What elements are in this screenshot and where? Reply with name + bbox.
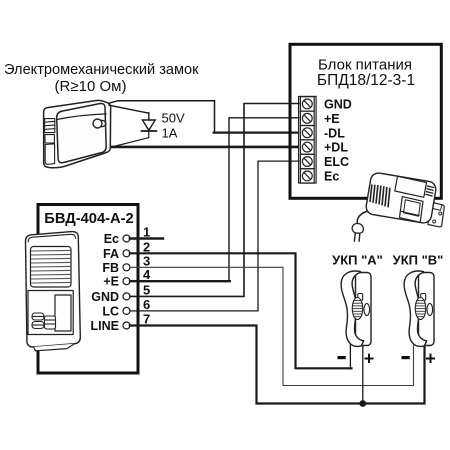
adapter plug	[352, 224, 363, 234]
svg-text:+E: +E	[103, 275, 119, 289]
terminal +DL	[300, 140, 314, 154]
diode VD1	[109, 105, 156, 146]
svg-text:FB: FB	[102, 261, 119, 275]
svg-text:Электромеханический замок: Электромеханический замок	[4, 62, 199, 78]
svg-text:6: 6	[143, 297, 150, 312]
svg-text:БПД18/12-3-1: БПД18/12-3-1	[317, 72, 415, 89]
panel speaker grille	[31, 247, 72, 288]
label: handset B minus	[402, 356, 410, 359]
wire: lock top terminal to -DL	[108, 101, 299, 133]
svg-text:FA: FA	[103, 247, 119, 261]
svg-text:5: 5	[143, 282, 150, 297]
wire: pin1 Ec stub	[130, 237, 163, 239]
БВД-404-А-2 box	[38, 205, 138, 374]
svg-text:Ec: Ec	[324, 170, 339, 184]
wire: GND terminal to panel pin5 GND	[130, 104, 299, 297]
lock barrel	[93, 119, 102, 128]
svg-text:4: 4	[143, 267, 151, 282]
lock (электромеханический замок)	[44, 100, 111, 167]
svg-text:GND: GND	[91, 290, 119, 304]
terminal +E	[300, 111, 314, 125]
lock strike plates (left column)	[45, 119, 55, 165]
terminal Ec	[300, 169, 314, 183]
panel buttons	[32, 313, 56, 329]
wire: +E terminal to panel pin4 +E	[130, 118, 299, 281]
svg-text:Ec: Ec	[104, 232, 119, 246]
terminal GND	[300, 97, 314, 111]
power supply box БПД18/12-3-1	[290, 44, 441, 198]
adapter socket recess	[400, 197, 424, 223]
svg-text:+: +	[425, 349, 436, 369]
svg-text:LINE: LINE	[91, 319, 119, 333]
svg-text:50V: 50V	[162, 111, 185, 126]
terminal ELC	[300, 154, 314, 168]
svg-text:LC: LC	[102, 304, 119, 318]
intercom panel drawing	[25, 232, 80, 351]
adapter right vents	[426, 186, 434, 196]
svg-text:(R≥10 Ом): (R≥10 Ом)	[55, 78, 127, 95]
power supply unit photo	[352, 172, 444, 241]
junction: bus / handset A plus	[359, 400, 366, 407]
svg-text:Блок питания: Блок питания	[318, 57, 412, 74]
label: handset A minus	[338, 356, 346, 359]
adapter vents left	[370, 185, 390, 206]
svg-text:УКП "В": УКП "В"	[393, 252, 444, 267]
wire: lock bottom terminal to +DL	[105, 146, 299, 149]
svg-text:2: 2	[143, 239, 150, 254]
svg-text:1: 1	[143, 225, 150, 240]
svg-text:+DL: +DL	[324, 141, 348, 155]
svg-text:+E: +E	[324, 112, 340, 126]
handset B (УКП В)	[404, 271, 434, 346]
svg-text:-DL: -DL	[324, 126, 345, 140]
terminal strip	[299, 96, 317, 183]
adapter bracket right	[428, 202, 444, 227]
panel lower section	[28, 291, 73, 335]
svg-text:ELC: ELC	[324, 155, 349, 169]
adapter body	[365, 172, 437, 224]
wire: FB to handset B minus	[130, 267, 414, 385]
adapter power cord	[357, 212, 366, 224]
wire: LINE to bottom bus	[130, 326, 425, 404]
wire: handset A plus drop	[362, 344, 364, 404]
svg-text:УКП "А": УКП "А"	[332, 252, 383, 267]
panel foot	[34, 344, 75, 351]
svg-text:1A: 1A	[162, 126, 178, 141]
wire: FA to handset A minus	[130, 253, 352, 369]
adapter top label	[395, 176, 427, 197]
svg-text:GND: GND	[324, 98, 352, 112]
terminal -DL	[300, 126, 314, 140]
svg-text:7: 7	[143, 312, 150, 327]
svg-text:БВД-404-А-2: БВД-404-А-2	[44, 211, 133, 227]
handset A (УКП А)	[341, 271, 371, 346]
wire: ELC terminal to panel pin6 LC	[130, 161, 299, 311]
svg-text:+: +	[364, 349, 375, 369]
svg-text:3: 3	[143, 253, 150, 268]
